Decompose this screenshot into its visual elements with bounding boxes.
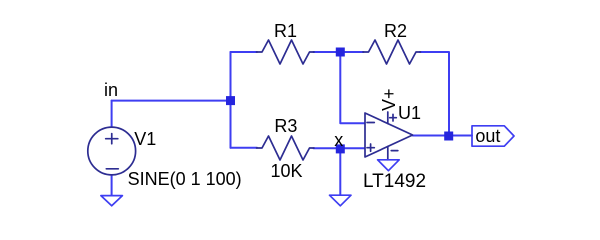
wire [340,52,364,123]
wire [314,147,365,149]
junction [226,96,235,105]
junction [336,48,345,57]
value LT1492 [363,173,426,191]
wire [339,148,341,195]
wire [231,147,258,149]
wire [314,51,364,53]
wire [111,175,113,195]
junction [444,132,453,141]
op-amp U1 [365,113,413,157]
wire [413,135,472,137]
label R1 [274,22,297,40]
label R2 [384,22,407,40]
ground [378,160,400,171]
resistor R2 [363,40,421,64]
node x junction [336,144,345,153]
wire [420,52,449,136]
node x label [334,131,343,149]
wire [111,101,113,127]
voltage source V1 [88,127,136,175]
resistor R3 [257,136,315,160]
port out [472,126,514,146]
wire [112,100,231,102]
pin V+ [388,112,397,124]
label U1 [398,104,421,122]
value SINE(0 1 100) [128,170,242,188]
pin V- [388,147,398,160]
port out label [475,127,500,145]
ground [330,195,352,206]
value 10K [271,162,303,180]
pin label V+ [380,89,398,112]
ground [101,196,123,206]
wire [230,52,232,148]
node in label [104,81,118,99]
resistor R1 [257,40,315,64]
label V1 [134,130,156,148]
label R3 [274,117,297,135]
wire [231,51,258,53]
